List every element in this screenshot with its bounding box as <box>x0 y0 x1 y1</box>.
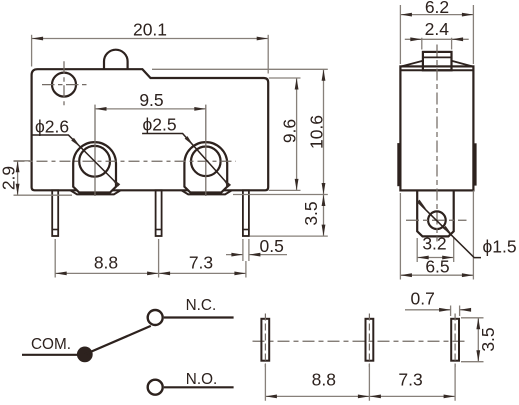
side body top flange line <box>400 69 473 71</box>
mounting hole top-left <box>52 73 76 97</box>
svg-text:COM.: COM. <box>31 336 71 353</box>
svg-text:20.1: 20.1 <box>133 20 167 40</box>
svg-text:7.3: 7.3 <box>398 370 422 390</box>
dimension 3.5 front <box>323 195 325 237</box>
svg-text:9.5: 9.5 <box>139 90 163 110</box>
bottom pin 3 <box>451 319 459 361</box>
dimension 2.9 <box>14 161 73 195</box>
svg-text:ϕ2.5: ϕ2.5 <box>143 115 177 135</box>
right boss outline <box>184 142 227 192</box>
dimension 2.4 <box>422 38 452 50</box>
pin 1 front <box>52 190 58 236</box>
dimension 0.5 <box>243 239 249 261</box>
dimension 3.5 bottom <box>461 318 484 362</box>
dimension 3.2 <box>417 238 454 262</box>
side plunger button <box>423 52 452 70</box>
dimension 9.5 <box>95 108 206 110</box>
boss center line horizontal dashed <box>14 160 237 162</box>
bottom view center line <box>253 340 469 342</box>
svg-text:6.2: 6.2 <box>425 0 449 17</box>
hole center line vertical <box>63 61 65 105</box>
svg-text:2.4: 2.4 <box>425 19 450 39</box>
svg-text:8.8: 8.8 <box>94 253 118 273</box>
N.O. wire <box>164 386 234 388</box>
side body outline <box>400 66 473 190</box>
COM node dot <box>77 347 93 363</box>
N.C. wire <box>164 316 234 318</box>
left side tab <box>397 143 401 186</box>
N.C. contact circle <box>148 310 163 325</box>
left boss center line vertical <box>94 105 96 196</box>
dimension 0.7 <box>451 306 460 317</box>
plunger button front <box>104 50 128 70</box>
pin 2 front <box>156 190 162 236</box>
right side tab <box>473 143 477 185</box>
svg-text:ϕ1.5: ϕ1.5 <box>483 237 517 257</box>
dimensions 8.8 / 7.3 bottom <box>265 364 455 401</box>
pin 3 front <box>243 190 249 236</box>
svg-text:N.C.: N.C. <box>186 297 217 314</box>
left boss hole phi2.6 <box>79 146 110 177</box>
left boss pedestal <box>70 190 120 194</box>
switch lever wire <box>85 326 151 355</box>
svg-text:3.2: 3.2 <box>422 234 446 254</box>
COM wire <box>22 354 85 356</box>
svg-text:6.5: 6.5 <box>425 257 449 277</box>
side terminal <box>417 190 454 236</box>
svg-text:10.6: 10.6 <box>307 115 327 149</box>
dimension 10.6 <box>323 69 325 194</box>
collar right diagonal <box>452 61 473 67</box>
left boss outline <box>73 142 116 192</box>
svg-text:9.6: 9.6 <box>280 119 300 143</box>
terminal hole center line horizontal <box>406 219 467 221</box>
svg-text:2.9: 2.9 <box>0 166 19 190</box>
svg-text:N.O.: N.O. <box>186 371 217 388</box>
right boss center line vertical <box>205 105 207 196</box>
terminal hole phi1.5 <box>428 211 446 229</box>
svg-text:8.8: 8.8 <box>312 370 336 390</box>
svg-text:0.7: 0.7 <box>411 289 435 309</box>
right boss pedestal <box>182 190 232 194</box>
side view center line vertical <box>436 45 438 242</box>
dimension 9.6 <box>296 78 298 190</box>
dimension 6.5 <box>400 191 473 280</box>
N.O. contact circle <box>148 380 163 395</box>
label phi1.5 with leader <box>417 201 481 257</box>
front view body outline <box>32 69 269 190</box>
extension lines right of front view <box>152 68 328 70</box>
dimensions 8.8 / 7.3 front <box>55 239 246 278</box>
right boss hole phi2.5 <box>191 147 221 177</box>
collar left diagonal <box>402 61 423 67</box>
dimension 6.2 <box>400 5 473 64</box>
bottom pin 1 <box>261 319 269 361</box>
svg-text:ϕ2.6: ϕ2.6 <box>35 117 69 137</box>
svg-text:0.5: 0.5 <box>260 236 284 256</box>
svg-text:3.5: 3.5 <box>478 327 498 351</box>
dimension 20.1 <box>31 35 33 67</box>
svg-text:3.5: 3.5 <box>301 201 321 225</box>
svg-text:7.3: 7.3 <box>189 253 213 273</box>
bottom pin 2 <box>366 319 374 361</box>
hole center line horizontal <box>42 84 87 86</box>
